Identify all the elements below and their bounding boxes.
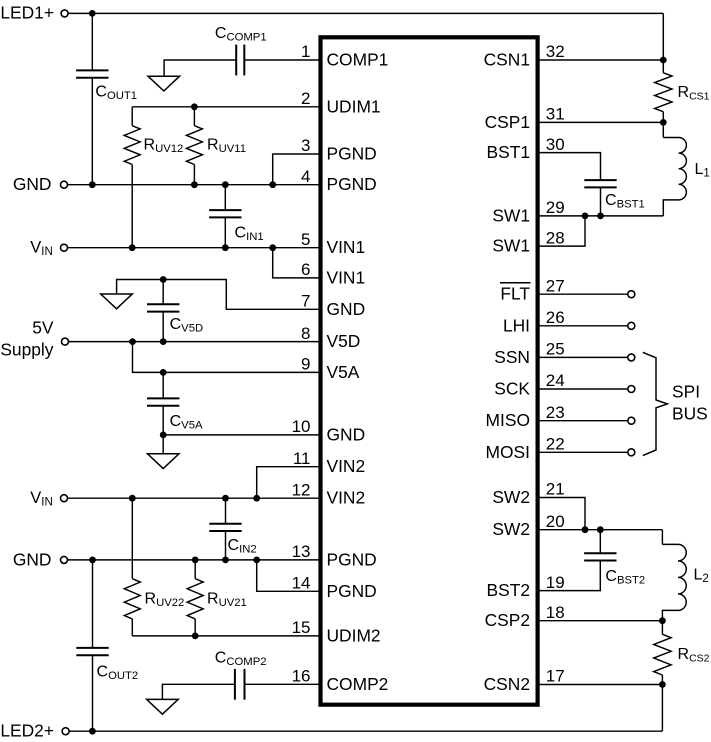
- ground near CV5D: [101, 294, 133, 309]
- svg-text:7: 7: [301, 292, 310, 311]
- svg-text:PGND: PGND: [327, 144, 377, 164]
- pin 30 BST1 label and number: [487, 135, 565, 162]
- svg-text:6: 6: [301, 260, 310, 279]
- wire bottom-right riser: [661, 685, 663, 732]
- wire pin28 SW1 branch: [538, 216, 585, 246]
- pin 19 BST2 label and number: [487, 573, 565, 600]
- wire CIN1 bottom branch: [222, 217, 229, 251]
- resistor RUV12: [124, 107, 183, 251]
- svg-text:31: 31: [546, 105, 565, 124]
- wire pin16 COMP2: [244, 683, 321, 685]
- capacitor COUT2: [76, 648, 138, 682]
- wire pin17 CSN2: [538, 684, 663, 686]
- capacitor CCOMP1: [215, 25, 267, 75]
- svg-text:30: 30: [546, 135, 565, 154]
- svg-text:VIN2: VIN2: [327, 488, 366, 508]
- pin 12 VIN2 label and number: [292, 480, 366, 507]
- capacitor CBST1: [584, 180, 645, 211]
- capacitor CIN2: [209, 524, 256, 556]
- svg-text:COMP1: COMP1: [327, 50, 389, 70]
- wire CCOMP1 to ground: [164, 60, 236, 76]
- svg-text:CSP1: CSP1: [485, 112, 530, 132]
- wire pin3 PGND branch: [269, 154, 320, 188]
- node 5V Supply terminal: [0, 318, 68, 360]
- pin 29 SW1 label and number: [492, 198, 564, 225]
- svg-text:SW1: SW1: [492, 205, 530, 225]
- wire CV5D bottom branch: [160, 312, 167, 345]
- wire pin18 CSP2: [538, 617, 666, 624]
- pin 7 GND label and number: [301, 292, 365, 319]
- svg-text:32: 32: [546, 42, 565, 61]
- svg-text:GND: GND: [327, 424, 366, 444]
- svg-text:4: 4: [301, 167, 310, 186]
- pin 23 MISO label and number: [486, 403, 565, 430]
- svg-text:22: 22: [546, 435, 565, 454]
- wire CIN1 top branch: [222, 181, 229, 210]
- wire VIN rail (lower) pin12: [68, 497, 321, 499]
- svg-text:3: 3: [301, 136, 310, 155]
- wire pin20 SW2: [538, 526, 663, 533]
- svg-text:17: 17: [546, 667, 565, 686]
- ground below CV5A: [147, 454, 179, 469]
- pin 16 COMP2 label and number: [292, 667, 389, 694]
- wire COUT1 bottom branch: [89, 78, 96, 188]
- pin 22 MOSI label and number: [486, 435, 565, 462]
- capacitor CV5A: [147, 398, 203, 431]
- wire CIN2 top branch: [222, 495, 229, 524]
- wire pin24 open stub: [538, 386, 635, 393]
- pin 25 SSN label and number: [494, 340, 564, 367]
- wire pin6 VIN1 branch: [269, 244, 320, 278]
- svg-text:16: 16: [292, 667, 311, 686]
- wire COUT2 top branch: [89, 557, 96, 648]
- svg-text:BST2: BST2: [487, 580, 531, 600]
- wire CV5D top branch: [160, 276, 167, 304]
- svg-text:SSN: SSN: [494, 347, 530, 367]
- pin 10 GND label and number: [292, 417, 366, 444]
- wire pin26 open stub: [538, 322, 635, 329]
- node GND terminal (lower): [13, 549, 68, 569]
- pin 4 PGND label and number: [301, 167, 377, 194]
- svg-text:CSP2: CSP2: [485, 610, 530, 630]
- pin 26 LHI label and number: [503, 308, 565, 335]
- svg-text:BUS: BUS: [672, 403, 708, 423]
- svg-text:SW2: SW2: [492, 519, 530, 539]
- pin 1 COMP1 label and number: [301, 42, 388, 69]
- wire CV5A bottom branch: [160, 406, 167, 454]
- svg-text:SCK: SCK: [494, 379, 530, 399]
- wire pin19 BST2 branch: [538, 561, 601, 591]
- svg-text:11: 11: [293, 449, 311, 468]
- svg-text:SW1: SW1: [492, 236, 530, 256]
- ground near CCOMP2: [147, 699, 179, 714]
- svg-text:GND: GND: [13, 174, 52, 194]
- node SPI BUS brace: [643, 352, 708, 455]
- inductor L1: [663, 122, 710, 215]
- resistor RUV11: [186, 107, 246, 188]
- svg-text:23: 23: [546, 403, 565, 422]
- wire 5V supply rail pin8 V5D: [69, 341, 321, 343]
- svg-text:BST1: BST1: [487, 142, 531, 162]
- svg-text:24: 24: [546, 371, 565, 390]
- resistor RCS1: [655, 73, 710, 126]
- wire pin2 UDIM1: [132, 103, 320, 110]
- svg-text:VIN2: VIN2: [327, 456, 366, 476]
- svg-text:FLT: FLT: [500, 284, 530, 304]
- svg-text:PGND: PGND: [327, 549, 377, 569]
- pin 21 SW2 label and number: [492, 480, 564, 507]
- pin 15 UDIM2 label and number: [292, 618, 381, 645]
- svg-text:LED2+: LED2+: [0, 721, 54, 741]
- svg-text:PGND: PGND: [327, 581, 377, 601]
- wire COUT2 bottom branch: [89, 655, 96, 734]
- svg-text:SW2: SW2: [492, 487, 530, 507]
- pin 5 VIN1 label and number: [301, 230, 365, 257]
- svg-text:CSN1: CSN1: [484, 50, 530, 70]
- wire pin22 open stub: [538, 449, 635, 456]
- wire pin27 open stub: [538, 291, 635, 298]
- svg-text:12: 12: [292, 480, 311, 499]
- wire CIN2 bottom branch: [222, 531, 229, 563]
- wire pin21 SW2 branch: [538, 498, 589, 534]
- inductor L2: [662, 530, 708, 621]
- pin 18 CSP2 label and number: [485, 603, 565, 630]
- svg-text:5V: 5V: [32, 318, 54, 338]
- capacitor COUT1: [76, 70, 137, 102]
- wire pin15 UDIM2: [132, 635, 320, 637]
- svg-text:MOSI: MOSI: [486, 442, 530, 462]
- wire pin31 CSP1: [538, 121, 664, 123]
- svg-text:CSN2: CSN2: [484, 674, 530, 694]
- node LED1+ terminal: [0, 3, 68, 23]
- wire pin29 SW1: [538, 213, 664, 220]
- svg-text:10: 10: [292, 417, 311, 436]
- wire pin25 open stub: [538, 354, 635, 361]
- wire LED1+ rail: [69, 12, 664, 14]
- svg-text:V5D: V5D: [327, 331, 361, 351]
- svg-text:SPI: SPI: [672, 381, 700, 401]
- svg-text:GND: GND: [13, 549, 52, 569]
- svg-text:19: 19: [546, 573, 565, 592]
- svg-text:UDIM2: UDIM2: [327, 625, 381, 645]
- node VIN terminal (lower): [30, 489, 67, 509]
- ground near CCOMP1: [148, 76, 180, 91]
- wire pin23 open stub: [538, 417, 635, 424]
- pin 31 CSP1 label and number: [485, 105, 565, 132]
- wire pin9 V5A branch: [129, 338, 320, 372]
- svg-text:14: 14: [292, 574, 311, 593]
- svg-text:LHI: LHI: [503, 315, 530, 335]
- svg-text:5: 5: [301, 230, 310, 249]
- wire GND rail (lower) pin13: [68, 559, 321, 561]
- svg-text:9: 9: [301, 355, 310, 374]
- wire GND rail (upper): [68, 184, 321, 186]
- resistor RUV21: [187, 557, 247, 640]
- pin 13 PGND label and number: [292, 542, 377, 569]
- svg-text:COMP2: COMP2: [327, 674, 389, 694]
- resistor RUV22: [124, 495, 184, 636]
- capacitor CIN1: [209, 210, 264, 243]
- svg-text:13: 13: [292, 542, 311, 561]
- pin 20 SW2 label and number: [492, 512, 564, 539]
- svg-text:Supply: Supply: [0, 340, 53, 360]
- svg-text:1: 1: [301, 42, 310, 61]
- pin 3 PGND label and number: [301, 136, 377, 163]
- wire pin1 COMP1: [244, 59, 320, 61]
- node GND terminal (upper): [13, 174, 68, 194]
- svg-text:VIN1: VIN1: [327, 267, 366, 287]
- wire pin10 GND: [163, 434, 320, 436]
- wire CV5A top branch: [160, 369, 167, 398]
- svg-text:27: 27: [546, 276, 565, 295]
- pin 9 V5A label and number: [301, 355, 360, 382]
- wire pin7 GND to ground: [117, 280, 321, 310]
- svg-text:VIN1: VIN1: [327, 237, 366, 257]
- svg-text:21: 21: [546, 480, 565, 499]
- svg-text:20: 20: [546, 512, 565, 531]
- svg-text:15: 15: [292, 618, 311, 637]
- pin 6 VIN1 label and number: [301, 260, 365, 287]
- svg-text:25: 25: [546, 340, 565, 359]
- svg-text:28: 28: [546, 228, 565, 247]
- wire CCOMP2 to ground: [162, 684, 235, 699]
- pin 2 UDIM1 label and number: [301, 89, 381, 116]
- pin 14 PGND label and number: [292, 574, 377, 601]
- pin 28 SW1 label and number: [492, 228, 564, 255]
- pin 11 VIN2 label and number: [293, 449, 365, 476]
- capacitor CV5D: [147, 304, 203, 334]
- wire pin32 CSN1: [538, 57, 667, 64]
- wire pin11 VIN2 branch: [253, 467, 320, 502]
- svg-text:8: 8: [301, 324, 310, 343]
- svg-text:29: 29: [546, 198, 565, 217]
- node LED2+ terminal: [0, 721, 69, 741]
- svg-text:18: 18: [546, 603, 565, 622]
- pin 27 FLT label and number: [500, 276, 565, 303]
- wire top-right riser: [662, 13, 664, 72]
- svg-text:PGND: PGND: [327, 174, 377, 194]
- node VIN terminal (upper): [30, 238, 67, 258]
- op-amp U1 LED driver IC body: [321, 37, 538, 704]
- resistor RCS2: [654, 621, 710, 688]
- svg-text:UDIM1: UDIM1: [327, 96, 381, 116]
- pin 17 CSN2 label and number: [484, 667, 565, 694]
- wire VIN rail (upper): [68, 247, 321, 249]
- pin 24 SCK label and number: [494, 371, 564, 398]
- svg-text:V5A: V5A: [327, 362, 360, 382]
- svg-text:LED1+: LED1+: [0, 3, 54, 23]
- wire CBST2 top branch: [599, 530, 601, 554]
- pin 32 CSN1 label and number: [484, 42, 565, 69]
- svg-text:2: 2: [301, 89, 310, 108]
- svg-text:26: 26: [546, 308, 565, 327]
- capacitor CCOMP2: [215, 650, 267, 700]
- wire LED2+ rail: [70, 730, 663, 732]
- wire CBST1 bottom branch: [597, 187, 604, 219]
- wire COUT1 top branch: [89, 10, 96, 70]
- svg-text:MISO: MISO: [486, 410, 530, 430]
- wire pin14 PGND branch: [253, 557, 320, 592]
- wire pin30 BST1 branch: [538, 153, 601, 181]
- capacitor CBST2: [584, 553, 645, 586]
- pin 8 V5D label and number: [301, 324, 360, 351]
- svg-text:GND: GND: [327, 299, 366, 319]
